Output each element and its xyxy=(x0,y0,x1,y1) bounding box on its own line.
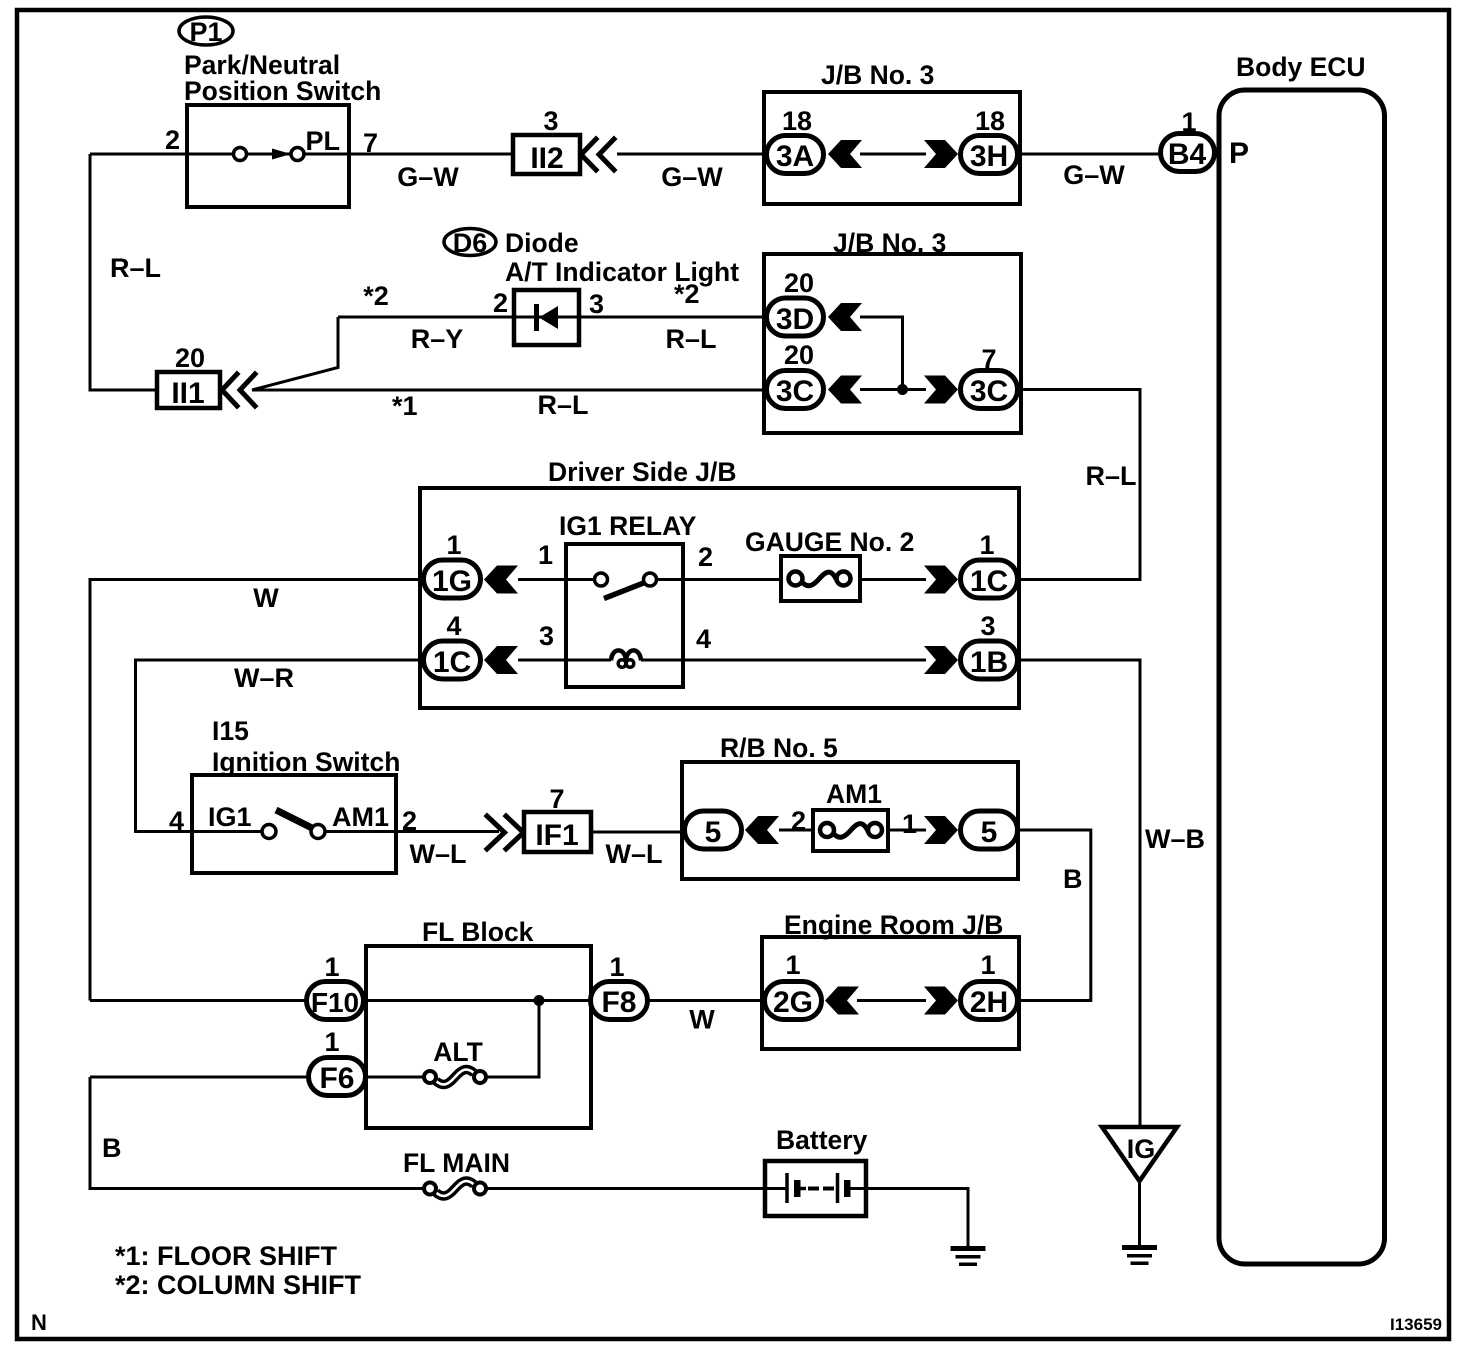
svg-text:Driver Side J/B: Driver Side J/B xyxy=(548,457,737,487)
IG triangle xyxy=(1102,1127,1177,1181)
relay IG1 RELAY xyxy=(559,511,697,687)
ground (battery) xyxy=(951,1246,986,1266)
ground (IG) xyxy=(1122,1245,1157,1265)
wire B vertical xyxy=(90,1077,424,1189)
arrow female at 5 xyxy=(745,816,779,844)
wire inside J/B xyxy=(860,388,926,391)
svg-text:1: 1 xyxy=(902,809,917,839)
battery xyxy=(765,1125,868,1216)
arrow male at 5 right xyxy=(924,816,958,844)
svg-text:R–L: R–L xyxy=(110,253,161,283)
svg-text:3C: 3C xyxy=(776,375,814,408)
svg-text:1C: 1C xyxy=(433,646,471,679)
svg-text:N: N xyxy=(31,1310,47,1335)
svg-text:5: 5 xyxy=(705,816,722,849)
svg-text:R–L: R–L xyxy=(537,390,588,420)
svg-text:F10: F10 xyxy=(311,987,359,1018)
svg-text:AM1: AM1 xyxy=(332,802,389,832)
relay switch contacts xyxy=(604,582,646,599)
junction block R/B No. 5 xyxy=(682,733,1018,879)
junction dot xyxy=(897,384,908,395)
svg-text:G–W: G–W xyxy=(661,162,723,192)
fuse AM1 xyxy=(813,779,888,851)
relay coil xyxy=(611,650,641,667)
arrow female at 3A xyxy=(828,140,862,168)
svg-text:W: W xyxy=(253,583,279,613)
wire xyxy=(338,316,766,319)
svg-text:1: 1 xyxy=(538,540,553,570)
fusible link ALT xyxy=(424,1037,486,1084)
wire F6 row xyxy=(90,1076,308,1079)
connector II1 xyxy=(157,343,255,410)
wire inside xyxy=(857,999,926,1002)
connector 5 right xyxy=(961,811,1018,849)
svg-text:1G: 1G xyxy=(432,565,472,598)
svg-text:I15: I15 xyxy=(212,716,249,746)
svg-text:2: 2 xyxy=(165,125,180,155)
svg-text:2: 2 xyxy=(791,806,806,836)
connector II2 xyxy=(513,106,614,175)
arrow female at 1G xyxy=(484,566,518,594)
svg-text:GAUGE No. 2: GAUGE No. 2 xyxy=(745,527,914,557)
arrow female at 2G xyxy=(825,987,859,1015)
wire row F left xyxy=(194,830,262,833)
connector 3D xyxy=(767,268,824,336)
svg-text:Position Switch: Position Switch xyxy=(184,76,381,106)
svg-text:IG1 RELAY: IG1 RELAY xyxy=(559,511,697,541)
svg-text:3: 3 xyxy=(980,611,995,641)
svg-text:P1: P1 xyxy=(189,17,222,47)
svg-text:Battery: Battery xyxy=(776,1125,868,1155)
svg-text:4: 4 xyxy=(696,624,711,654)
connector 5 left xyxy=(685,811,742,849)
svg-text:F6: F6 xyxy=(319,1062,354,1095)
wire xyxy=(90,153,513,156)
svg-text:*1: *1 xyxy=(392,391,418,421)
svg-text:4: 4 xyxy=(169,806,184,836)
svg-text:18: 18 xyxy=(782,106,812,136)
arrow female at 3C xyxy=(828,376,862,404)
svg-text:5: 5 xyxy=(981,816,998,849)
svg-text:W–L: W–L xyxy=(410,839,467,869)
connector 3C left xyxy=(767,340,824,409)
svg-text:Diode: Diode xyxy=(505,228,579,258)
svg-text:IG1: IG1 xyxy=(208,802,252,832)
svg-text:II1: II1 xyxy=(171,377,204,410)
svg-text:2: 2 xyxy=(493,288,508,318)
node P1 label xyxy=(179,17,233,47)
svg-text:B: B xyxy=(102,1133,122,1163)
connector 1G pin 1 xyxy=(424,530,481,598)
svg-text:R–L: R–L xyxy=(665,324,716,354)
svg-text:R–L: R–L xyxy=(1085,461,1136,491)
arrow male at 1C right xyxy=(924,566,958,594)
connector 2G pin 1 xyxy=(765,950,822,1020)
svg-text:3H: 3H xyxy=(970,140,1008,173)
svg-text:20: 20 xyxy=(784,268,814,298)
svg-text:G–W: G–W xyxy=(1063,160,1125,190)
svg-text:3: 3 xyxy=(543,106,558,136)
svg-text:A/T Indicator Light: A/T Indicator Light xyxy=(505,257,739,287)
svg-text:2G: 2G xyxy=(773,986,813,1019)
arrow male at 2H xyxy=(924,987,958,1015)
wire inside R/B xyxy=(779,829,815,832)
wire xyxy=(617,153,766,156)
svg-text:1: 1 xyxy=(980,950,995,980)
wire IG to ground xyxy=(1138,1181,1141,1245)
wire from 3D arrow to junction xyxy=(860,317,903,390)
svg-text:IF1: IF1 xyxy=(535,819,578,852)
svg-text:2: 2 xyxy=(402,806,417,836)
svg-text:FL Block: FL Block xyxy=(422,917,534,947)
svg-text:F8: F8 xyxy=(601,986,636,1019)
junction dot xyxy=(534,995,545,1006)
svg-text:7: 7 xyxy=(549,784,564,814)
svg-text:W–B: W–B xyxy=(1145,824,1205,854)
connector 1C right pin 1 xyxy=(961,530,1018,598)
ignition switch blade xyxy=(276,810,315,830)
junction block Driver Side J/B xyxy=(420,457,1019,708)
wire to battery xyxy=(486,1187,767,1190)
svg-text:B: B xyxy=(1063,864,1083,894)
connector F10 pin 1 xyxy=(307,952,364,1020)
arrow female at 3D xyxy=(828,303,862,331)
svg-text:Body ECU: Body ECU xyxy=(1236,52,1366,82)
svg-text:1: 1 xyxy=(785,950,800,980)
wire 3C right to R-L vertical xyxy=(1018,390,1140,580)
svg-text:1: 1 xyxy=(609,952,624,982)
svg-text:FL MAIN: FL MAIN xyxy=(403,1148,510,1178)
wire to F10 xyxy=(90,999,306,1002)
svg-text:P: P xyxy=(1229,137,1249,170)
connector 3H xyxy=(961,106,1018,174)
svg-text:II2: II2 xyxy=(530,142,563,175)
svg-text:*2: *2 xyxy=(363,281,389,311)
svg-text:1: 1 xyxy=(446,530,461,560)
svg-text:1C: 1C xyxy=(970,565,1008,598)
svg-text:18: 18 xyxy=(975,106,1005,136)
svg-text:ALT: ALT xyxy=(433,1037,483,1067)
connector B4 pin 1 xyxy=(1161,107,1250,172)
node D6 label xyxy=(444,228,496,258)
svg-text:R/B No. 5: R/B No. 5 xyxy=(720,733,838,763)
junction block Engine Room J/B xyxy=(762,910,1019,1049)
svg-text:*2: *2 xyxy=(674,279,700,309)
wire relay row 2 xyxy=(518,659,611,662)
wire xyxy=(591,831,684,834)
svg-text:AM1: AM1 xyxy=(826,779,882,809)
wire xyxy=(860,153,926,156)
wire W to 1G xyxy=(90,580,423,1001)
switch I15 Ignition Switch xyxy=(192,716,400,873)
svg-text:2H: 2H xyxy=(970,986,1008,1019)
arrow male at 3C right xyxy=(924,376,958,404)
connector 3C right xyxy=(961,344,1018,409)
svg-text:2: 2 xyxy=(698,542,713,572)
svg-text:G–W: G–W xyxy=(397,162,459,192)
connector IF1 pin 7 xyxy=(524,784,591,852)
connector 2H pin 1 xyxy=(961,950,1018,1020)
switch S1 Park/Neutral Position Switch xyxy=(165,50,381,207)
svg-text:IG: IG xyxy=(1127,1134,1156,1164)
arrow male at 1B xyxy=(924,646,958,674)
arrow male at 3H xyxy=(924,140,958,168)
arrow male inline connector xyxy=(487,816,505,849)
wire xyxy=(1018,153,1160,156)
svg-text:1: 1 xyxy=(324,1027,339,1057)
svg-text:3: 3 xyxy=(589,289,604,319)
arrow female at 1C xyxy=(484,646,518,674)
svg-text:4: 4 xyxy=(446,611,461,641)
wire diagonal *2 branch xyxy=(252,317,338,390)
connector 3A xyxy=(767,106,824,174)
svg-text:D6: D6 xyxy=(453,228,488,258)
svg-text:3C: 3C xyxy=(970,375,1008,408)
wire relay row 1 xyxy=(518,578,601,581)
svg-text:B4: B4 xyxy=(1168,138,1207,171)
wire W-B from 1B xyxy=(1018,660,1140,1127)
wire W-R xyxy=(136,660,424,832)
svg-text:1: 1 xyxy=(324,952,339,982)
wire *1 R-L long xyxy=(252,389,766,392)
svg-text:W–L: W–L xyxy=(606,839,663,869)
svg-text:*1: FLOOR SHIFT: *1: FLOOR SHIFT xyxy=(115,1241,338,1271)
wire battery to ground xyxy=(866,1189,968,1247)
junction block J/B No.3 (upper) xyxy=(764,60,1020,204)
wire B down to 2H xyxy=(1018,830,1091,1001)
svg-text:*2: COLUMN SHIFT: *2: COLUMN SHIFT xyxy=(115,1270,362,1300)
svg-text:20: 20 xyxy=(175,343,205,373)
wire inside FL block xyxy=(366,999,590,1002)
block FL Block xyxy=(366,917,591,1128)
svg-text:3D: 3D xyxy=(776,303,814,336)
svg-text:20: 20 xyxy=(784,340,814,370)
svg-text:W–R: W–R xyxy=(234,663,294,693)
fusible link FL MAIN xyxy=(403,1148,510,1196)
connector 1C left pin 4 xyxy=(424,611,481,679)
svg-text:R–Y: R–Y xyxy=(411,324,464,354)
svg-text:PL: PL xyxy=(305,126,340,156)
connector 1B pin 3 xyxy=(961,611,1018,679)
svg-text:Ignition Switch: Ignition Switch xyxy=(212,747,400,777)
wire R-L vertical from pin 2 xyxy=(90,154,157,390)
connector F6 pin 1 xyxy=(309,1027,366,1096)
svg-text:7: 7 xyxy=(363,128,378,158)
svg-text:I13659: I13659 xyxy=(1390,1315,1442,1334)
fuse GAUGE No. 2 xyxy=(745,527,914,601)
svg-text:3A: 3A xyxy=(776,140,814,173)
svg-text:W: W xyxy=(689,1005,715,1035)
connector F8 pin 1 xyxy=(591,952,648,1020)
diode component xyxy=(493,288,604,345)
wire ALT to junction xyxy=(486,1001,539,1078)
svg-text:1B: 1B xyxy=(970,646,1008,679)
junction block J/B No.3 (lower) xyxy=(764,228,1021,433)
svg-text:J/B No. 3: J/B No. 3 xyxy=(821,60,934,90)
svg-text:1: 1 xyxy=(979,530,994,560)
svg-text:3: 3 xyxy=(539,621,554,651)
ECU Body ECU xyxy=(1219,52,1385,1264)
wire F8 to 2G xyxy=(648,999,764,1002)
